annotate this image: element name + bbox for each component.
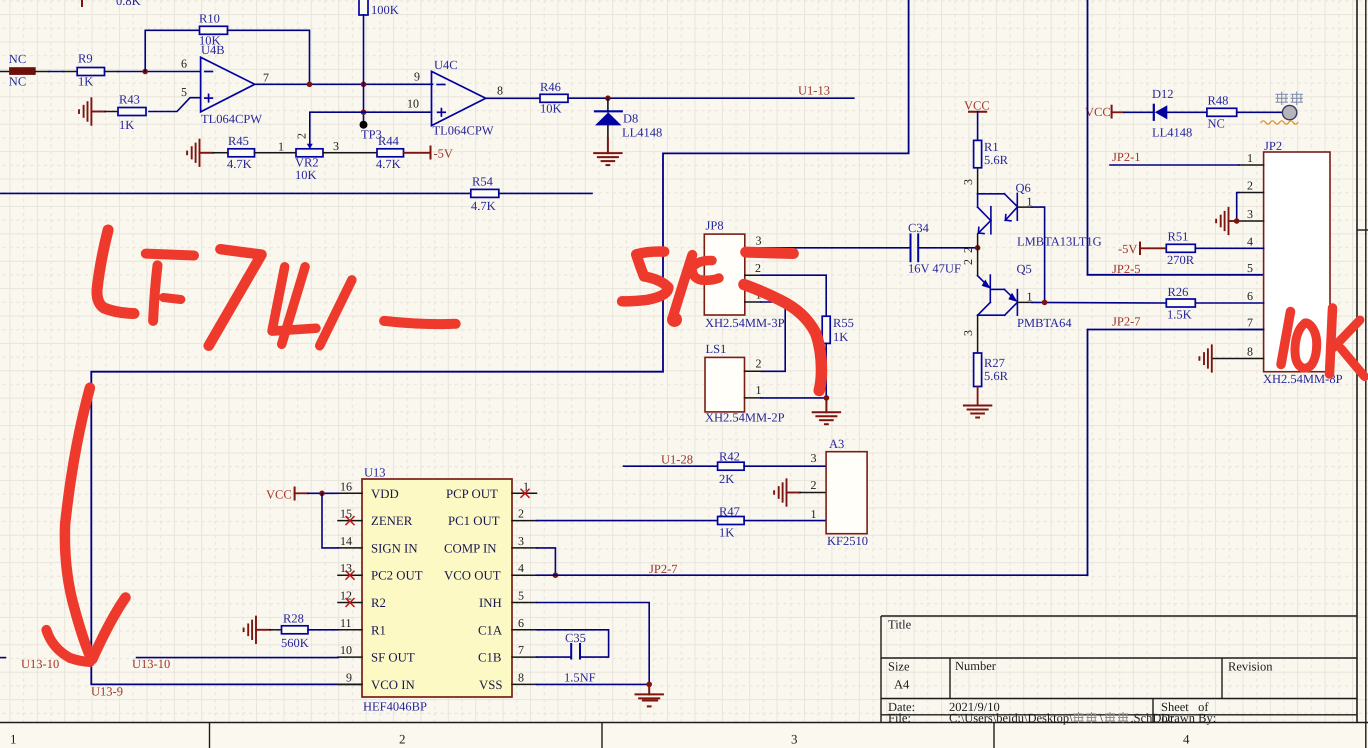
svg-text:U13-10: U13-10 [132,657,170,671]
wire R54 right [499,192,592,194]
svg-text:Q5: Q5 [1017,262,1032,276]
power -5V at R44 [404,152,431,154]
pin 3 of JP2 [1237,220,1264,222]
svg-text:C:\Users\beidu\Desktop\: C:\Users\beidu\Desktop\ [949,711,1073,725]
svg-text:PC2 OUT: PC2 OUT [371,569,423,583]
ground (signal) at JP2 pin8 [1199,345,1211,371]
svg-text:LMBTA13LT1G: LMBTA13LT1G [1017,235,1102,249]
pin 8 of JP2 [1212,358,1264,360]
svg-text:C1B: C1B [478,651,501,665]
resistor R45 [228,149,255,157]
svg-text:VDD: VDD [371,487,399,501]
wire NC to R9 [36,71,49,73]
svg-text:R10: R10 [199,12,220,26]
svg-text:R42: R42 [719,450,740,464]
svg-text:3: 3 [756,234,762,248]
SECTION: U13 PLL [0,437,1088,714]
bottom margin plain [0,723,1368,748]
svg-text:5: 5 [181,85,187,99]
wire R48 to pad [1237,111,1283,113]
svg-text:R26: R26 [1168,285,1189,299]
svg-text:XH2.54MM-2P: XH2.54MM-2P [705,411,785,425]
resistor R54 [471,189,499,197]
svg-text:5.6R: 5.6R [984,153,1009,167]
svg-text:U1-13: U1-13 [798,84,830,98]
wire long route from top edge to U13 pin9 [91,0,908,684]
annotation 1 of 10k [1281,312,1291,365]
annotation digit 7 of LF741 [209,249,262,346]
svg-text:R45: R45 [228,134,249,148]
svg-text:U13: U13 [364,466,386,480]
junction R55/LS1 ground [824,395,830,401]
svg-text:VCO OUT: VCO OUT [444,569,501,583]
resistor 100K vertical (cut at top) [359,0,368,15]
wire R43 to U4B pin5 with jog [149,98,201,112]
power stub remnant top edge [81,0,83,6]
pin 3 COMP IN [512,547,537,549]
svg-text:2: 2 [755,261,761,275]
junction at R9/feedback [142,69,148,75]
wire VCO OUT to JP2-7 vertical [537,574,1088,576]
wire JP8 pin2 to R55 [761,275,826,316]
svg-text:3: 3 [961,179,975,185]
junction Q5/vertical [1042,300,1048,306]
svg-text:3: 3 [961,330,975,336]
resistor R44 [377,149,404,157]
svg-text:13: 13 [340,561,352,575]
junction D8 [605,95,611,101]
pin 6 of JP2 [1195,302,1263,304]
svg-text:Number: Number [955,659,997,673]
svg-text:VCC: VCC [266,488,292,502]
connector JP2 [1264,152,1330,372]
connector LS1 [705,357,745,412]
svg-text:16: 16 [340,479,352,493]
svg-text:3: 3 [518,534,524,548]
wire D12 to R48 [1167,111,1207,113]
svg-text:6: 6 [518,616,524,630]
svg-text:2: 2 [961,259,975,265]
svg-text:3: 3 [811,451,817,465]
annotation dash after LF741 [384,321,456,324]
annotation swoosh of 5 [744,285,822,391]
svg-text:4: 4 [518,561,524,575]
svg-text:VCO IN: VCO IN [371,678,415,692]
ground (earth) below R27 [964,406,991,418]
svg-text:2: 2 [756,357,762,371]
wire R47 to A3 pin1 [744,520,826,522]
wire INH jog down to VSS [537,603,650,685]
ground (signal) at A3 pin2 [774,479,800,505]
svg-text:6: 6 [1247,289,1253,303]
svg-text:R43: R43 [119,93,140,107]
IC U13 HEF4046BP body [362,479,512,697]
svg-text:R9: R9 [78,52,93,66]
annotation 0 of 10k [1295,323,1317,368]
annotation arrow right barb [92,598,125,660]
svg-text:\: \ [1100,711,1104,725]
svg-text:SF OUT: SF OUT [371,651,415,665]
svg-text:1: 1 [811,507,817,521]
svg-text:270R: 270R [1167,253,1195,267]
wire 100K down through output to TP3 [363,15,365,125]
annotation k stem of 10k [1330,308,1333,374]
annotation letter F of LF741 [146,254,194,256]
svg-text:7: 7 [263,71,269,85]
svg-text:NC: NC [1208,117,1225,131]
wire U4B output to U4C pin9 [255,83,433,85]
svg-text:-5V: -5V [1118,242,1137,256]
svg-text:560K: 560K [281,636,309,650]
svg-text:INH: INH [479,596,502,610]
pin 2 of JP8 [745,274,761,276]
wire Q5 collector to R26 row [1032,301,1166,304]
svg-text:R51: R51 [1168,230,1189,244]
svg-text:2: 2 [295,133,309,139]
svg-text:JP2: JP2 [1264,139,1282,153]
svg-text:9: 9 [346,670,352,684]
svg-text:R48: R48 [1208,94,1229,108]
test point TP3 [360,121,368,129]
annotation letter L of LF741 [97,230,134,314]
pin 8 VSS [512,683,537,685]
resistor R9 [77,68,104,76]
svg-text:TL064CPW: TL064CPW [201,112,262,126]
border tick bottom x=210 [209,723,211,748]
wire SF OUT row (U13-10 net) [137,657,338,659]
svg-text:R1: R1 [984,140,999,154]
svg-text:12: 12 [340,589,352,603]
svg-text:1K: 1K [833,330,848,344]
svg-text:TL064CPW: TL064CPW [433,124,494,138]
svg-text:4.7K: 4.7K [227,157,252,171]
resistor R26 [1166,299,1195,307]
wire R28 to pin 11 [308,629,338,631]
pin 2 of LS1 [745,370,762,372]
svg-text:PC1 OUT: PC1 OUT [448,514,500,528]
svg-text:4.7K: 4.7K [471,199,496,213]
resistor R48 [1207,108,1237,116]
svg-text:15: 15 [340,507,352,521]
ground (earth) below junction [813,398,840,424]
pin 9 VCO IN [338,683,362,685]
svg-text:-5V: -5V [434,147,453,161]
svg-text:JP2-7: JP2-7 [649,562,677,576]
ground (earth) below VSS junction [636,684,663,706]
connector JP8 [704,234,745,315]
svg-text:LL4148: LL4148 [622,126,662,140]
wire LS1 pin1 to ground junction [761,397,826,399]
svg-text:1: 1 [1247,151,1253,165]
pin 1 PCP OUT [512,492,537,494]
op-amp U4B [181,43,269,126]
resistor R27 vertical [974,353,982,387]
wire JP2-5 net vertical from top [1088,0,1264,275]
svg-text:10: 10 [340,643,352,657]
pin 10 SF OUT [338,656,362,658]
svg-text:10: 10 [407,97,419,111]
svg-text:8: 8 [1247,345,1253,359]
svg-text:10K: 10K [540,102,562,116]
transistor Q6 LMBTA13LT1G [978,168,1102,249]
capacitor C34 [910,234,912,261]
annotation letter S of SP5 [622,252,668,302]
svg-text:4.7K: 4.7K [376,157,401,171]
wire R46 to U1-13 net end [568,97,854,99]
pin 3 of JP8 [745,247,761,249]
svg-text:R2: R2 [371,596,386,610]
svg-text:100K: 100K [371,3,399,17]
junction COMP/VCO OUT [553,572,559,578]
junction pin2/pin3 ground [1234,218,1240,224]
svg-text:VCC: VCC [964,99,990,113]
svg-text:7: 7 [1247,316,1253,330]
wire R27 to ground [977,387,979,406]
wire VCC down to SIGN IN [322,493,338,548]
svg-text:NC: NC [9,52,26,66]
wire SF OUT row left stub (U13-10 net) [0,657,6,659]
capacitor C35 [570,644,572,659]
resistor R1 vertical [974,140,982,167]
resistor R47 [718,517,745,525]
svg-text:Drawn By:: Drawn By: [1161,711,1216,725]
no-ERC X at pin 15 [346,517,354,525]
pin 16 VDD [338,492,362,494]
svg-text:PCP OUT: PCP OUT [446,487,498,501]
wire PC1 OUT to R47 [537,520,718,522]
svg-text:HEF4046BP: HEF4046BP [363,700,427,714]
wire JP8 pin3 to C34 [761,247,911,249]
wire stub left edge [0,71,9,73]
svg-text:1: 1 [756,383,762,397]
svg-text:Size: Size [888,660,910,674]
svg-text:5.6R: 5.6R [984,369,1009,383]
pin 14 SIGN IN [338,547,362,549]
annotation arrow shaft [65,388,91,658]
junction VCC/SIGN IN [319,491,325,497]
SECTION: middle connectors and transistors [704,99,1166,425]
title block outline [881,616,1357,723]
border tick right margin [1357,229,1368,231]
svg-text:14: 14 [340,534,352,548]
svg-text:1.5NF: 1.5NF [564,671,596,685]
svg-text:4: 4 [1247,235,1253,249]
svg-text:1: 1 [10,732,17,747]
junction INH/VSS [646,682,652,688]
svg-text:PMBTA64: PMBTA64 [1017,316,1072,330]
no-ERC X at pin 12 [346,599,354,607]
svg-text:2: 2 [518,507,524,521]
svg-text:ZENER: ZENER [371,514,413,528]
pin 11 R1 [338,629,362,631]
pin 13 PC2 OUT [338,574,362,576]
svg-text:R44: R44 [378,134,400,148]
junction feedback/output [307,82,313,88]
svg-text:1: 1 [1027,290,1033,304]
NC thick stub wire [9,67,36,75]
svg-text:1: 1 [278,140,284,154]
svg-text:JP2-1: JP2-1 [1112,150,1140,164]
wire Q6 emitter down to Q5 [1032,207,1045,302]
svg-text:6: 6 [181,57,187,71]
no-ERC X at pin 13 [346,571,354,579]
annotation slash of SP5 [673,255,693,318]
diode D8 [607,98,609,112]
pin 1 of LS1 [745,397,762,399]
resistor R43 [118,108,146,116]
svg-text:Title: Title [888,618,912,632]
wire pin2 down to pin3 ground [1237,193,1239,222]
wire JP8 pin1 down to LS1 pin2 [761,302,785,371]
wire VCC to D12 [1124,111,1154,113]
pad 焊盘 [1282,105,1296,119]
pin 5 INH [512,602,537,604]
svg-text:10K: 10K [295,168,317,182]
diode D12 [1153,105,1155,120]
svg-text:1K: 1K [78,75,93,89]
transistor Q5 PMBTA64 [978,246,1073,353]
wire R45 to VR2 [255,152,297,154]
svg-text:A4: A4 [894,678,910,692]
annotation arrow left barb [46,630,90,662]
wire VR2 wiper to U4C pin10 [310,112,432,149]
svg-text:11: 11 [340,616,352,630]
potentiometer VR2 [296,149,323,157]
svg-text:16V 47UF: 16V 47UF [908,262,961,276]
svg-text:JP8: JP8 [706,219,724,233]
svg-text:C35: C35 [565,631,586,645]
svg-text:8: 8 [518,670,524,684]
svg-text:JP2-7: JP2-7 [1112,315,1140,329]
svg-text:2: 2 [811,478,817,492]
svg-text:8: 8 [497,84,503,98]
pin 2 of JP2 [1239,192,1264,194]
svg-text:U4B: U4B [201,43,225,57]
svg-text:NC: NC [9,75,26,89]
annotation top bar of 5 [746,252,794,253]
svg-text:1K: 1K [719,526,734,540]
svg-text:9: 9 [414,70,420,84]
pin 6 C1A [512,629,537,631]
svg-text:4: 4 [1183,732,1190,747]
no-ERC X at pin 1 [521,489,529,497]
pin 7 C1B [512,656,537,658]
svg-text:1K: 1K [119,118,134,132]
annotation k arm of 10k [1333,320,1360,348]
resistor R46 [540,94,568,102]
svg-text:LS1: LS1 [706,342,727,356]
SECTION: red handwritten annotations [46,230,1364,662]
sheet inner border right [1356,0,1358,723]
wire C1A jog [537,630,609,657]
svg-text:R28: R28 [283,611,304,625]
wire feedback right down to output [228,30,310,84]
svg-text:0.8K: 0.8K [116,0,141,8]
wire R55 to ground junction [825,343,827,398]
svg-text:2: 2 [961,247,975,253]
annotation digit 4 of LF741 [272,267,316,331]
wire U4C output to R46 [486,97,540,99]
sheet outer border right [1365,0,1367,748]
pin 7 of JP2 [1239,329,1264,331]
svg-text:XH2.54MM-3P: XH2.54MM-3P [705,316,785,330]
border tick bottom x=602 [601,723,603,748]
svg-text:C34: C34 [908,221,930,235]
wire COMP IN jog to VCO OUT [537,548,556,575]
ground (signal) at JP2 pin3 [1216,208,1237,234]
annotation k leg of 10k [1341,349,1365,377]
svg-text:3: 3 [1247,207,1253,221]
svg-text:D8: D8 [623,112,638,126]
resistor R55 vertical [822,316,830,343]
svg-text:JP2-5: JP2-5 [1112,262,1140,276]
pin 15 ZENER [338,520,362,522]
wire JP2-7 vertical down to U13 [1088,330,1264,576]
svg-text:VSS: VSS [479,678,502,692]
svg-text:Revision: Revision [1228,660,1273,674]
resistor R42 [718,462,745,470]
ground (earth) below D8 [607,125,609,138]
ground (signal) at R43 [79,98,105,125]
connector A3 KF2510 [826,452,867,534]
svg-text:5: 5 [518,589,524,603]
pin 1 of JP8 [745,301,761,303]
svg-text:1.5K: 1.5K [1167,308,1192,322]
svg-text:7: 7 [518,643,524,657]
svg-text:D12: D12 [1152,87,1174,101]
svg-text:U4C: U4C [434,58,458,72]
svg-text:VCC: VCC [1085,105,1111,119]
resistor R28 [282,626,309,634]
annotation P bowl of SP5 [692,260,719,280]
svg-text:R54: R54 [472,175,494,189]
ground (signal) at R45 [187,140,213,166]
junction TP3 line / pin10 line [361,109,367,115]
pin 12 R2 [338,602,362,604]
pin 4 VCO OUT [512,574,537,576]
svg-text:U13-10: U13-10 [21,657,59,671]
ground (signal) at R28 [244,617,270,643]
junction 100K/output [361,82,367,88]
wire VR2 to R44 [323,152,377,154]
wire R42 to A3 pin3 [744,465,826,467]
svg-text:U1-28: U1-28 [661,453,693,467]
svg-text:File:: File: [888,711,911,725]
wire feedback up [145,30,199,71]
svg-text:A3: A3 [829,437,844,451]
wire ground to A3 pin2 [800,492,826,494]
border tick bottom x=994 [993,723,995,748]
svg-text:COMP IN: COMP IN [444,541,497,555]
svg-text:R47: R47 [719,505,740,519]
pin 4 of JP2 [1239,247,1264,249]
svg-text:U13-9: U13-9 [91,685,123,699]
wire R51 to pin4 [1195,247,1263,249]
sheet inner border bottom [0,722,1368,724]
wire R54 row left [0,192,471,194]
resistor R51 [1166,244,1195,252]
wire VSS row [537,683,650,685]
svg-text:3: 3 [333,139,339,153]
pin 2 PC1 OUT [512,520,537,522]
svg-text:SIGN IN: SIGN IN [371,541,418,555]
compile-mark squiggle under pad [1261,121,1298,124]
wire R9 to U4B pin6 [105,71,119,73]
op-amp U4C [407,58,503,138]
SECTION: top-left op-amp stage [0,0,909,684]
annotation digit 1 of LF741 [320,280,352,346]
svg-text:2K: 2K [719,472,734,486]
